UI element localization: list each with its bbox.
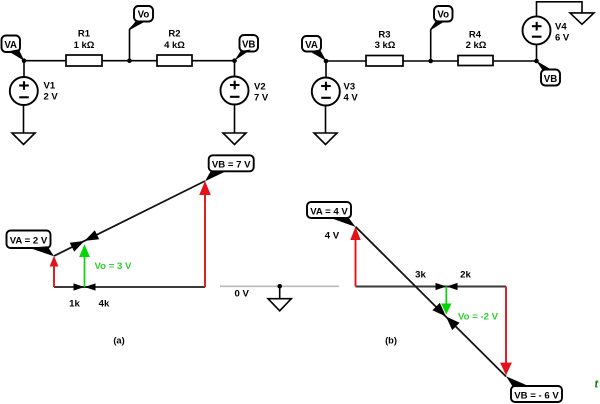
gray 0V line bbox=[220, 285, 339, 287]
svg-text:V3: V3 bbox=[344, 81, 356, 92]
svg-text:3 kΩ: 3 kΩ bbox=[375, 40, 396, 51]
ground under V1 bbox=[12, 133, 35, 145]
wire Vo tap bbox=[130, 22, 138, 61]
ground on 0V line bbox=[268, 284, 291, 311]
svg-text:4 V: 4 V bbox=[344, 92, 359, 103]
label box VA = 2 V bbox=[7, 231, 55, 257]
wire Vo2 tap bbox=[431, 22, 437, 62]
potential line VA-VB (b) bbox=[356, 227, 507, 377]
node A2 junction dot bbox=[324, 59, 329, 64]
svg-text:R4: R4 bbox=[469, 29, 482, 40]
svg-text:R3: R3 bbox=[378, 29, 390, 40]
arrowhead slope right (a) bbox=[85, 230, 100, 241]
svg-text:1 kΩ: 1 kΩ bbox=[74, 40, 95, 51]
baseline dimension arrows (b) bbox=[436, 283, 458, 290]
svg-text:V2: V2 bbox=[254, 81, 266, 92]
arrowhead slope upper (b) bbox=[432, 303, 446, 317]
svg-text:VB = 7 V: VB = 7 V bbox=[212, 160, 251, 171]
resistor R3 bbox=[366, 29, 403, 66]
wire VA node to V1 bbox=[23, 61, 25, 77]
node label VB bbox=[234, 35, 258, 61]
green arrow Vo (a) bbox=[79, 244, 90, 287]
node B junction dot bbox=[232, 58, 237, 63]
svg-text:3k: 3k bbox=[415, 269, 426, 280]
wire V4 top to ground bbox=[537, 2, 583, 16]
svg-text:1k: 1k bbox=[69, 299, 80, 310]
svg-text:4k: 4k bbox=[99, 299, 110, 310]
baseline (a) bbox=[54, 286, 205, 288]
svg-text:VB: VB bbox=[544, 74, 557, 85]
wire V2 to ground bbox=[234, 105, 236, 133]
node Vo junction dot bbox=[127, 58, 132, 63]
resistor R2 bbox=[157, 28, 192, 66]
svg-text:VA = 2 V: VA = 2 V bbox=[10, 236, 48, 247]
svg-text:4 V: 4 V bbox=[325, 231, 340, 242]
svg-text:VA: VA bbox=[305, 40, 318, 51]
svg-text:VA = 4 V: VA = 4 V bbox=[310, 206, 348, 217]
node label VA bbox=[2, 36, 25, 61]
node B2 junction dot bbox=[534, 59, 539, 64]
svg-text:(a): (a) bbox=[113, 336, 124, 346]
ground top right bbox=[570, 13, 594, 24]
wire node A2 horizontal bbox=[326, 60, 366, 62]
resistor R1 bbox=[66, 28, 102, 66]
baseline (b) bbox=[356, 286, 507, 288]
wire node A horizontal bbox=[24, 60, 66, 62]
wire V3 to ground bbox=[325, 106, 327, 133]
baseline dimension arrows (a) bbox=[74, 283, 96, 290]
ground under V3 bbox=[314, 133, 337, 145]
label box VB = - 6 V bbox=[506, 376, 562, 402]
svg-text:V4: V4 bbox=[555, 21, 567, 32]
wire R4 to node B2 bbox=[493, 60, 537, 62]
svg-text:(b): (b) bbox=[385, 336, 397, 346]
red arrow VB (a) bbox=[199, 181, 211, 287]
node Vo2 junction dot bbox=[428, 59, 433, 64]
svg-text:0 V: 0 V bbox=[234, 289, 249, 300]
arrowhead slope left (a) bbox=[70, 241, 85, 252]
svg-text:Vo: Vo bbox=[437, 10, 449, 21]
label box VA = 4 V bbox=[307, 202, 356, 227]
wire V4 bottom to node B2 bbox=[536, 45, 538, 61]
svg-text:6 V: 6 V bbox=[555, 32, 570, 43]
wire R1 to R2 bbox=[102, 60, 157, 62]
voltage source V4 bbox=[523, 16, 570, 44]
node label VA2 bbox=[302, 36, 326, 61]
svg-text:7 V: 7 V bbox=[254, 92, 269, 103]
svg-text:V1: V1 bbox=[44, 80, 56, 91]
label box VB = 7 V bbox=[205, 155, 254, 181]
ground under V2 bbox=[223, 133, 246, 145]
svg-text:2 V: 2 V bbox=[44, 91, 59, 102]
svg-text:VB: VB bbox=[242, 40, 255, 51]
svg-text:Vo = -2 V: Vo = -2 V bbox=[458, 311, 499, 322]
red arrow VB (b) bbox=[500, 287, 512, 376]
node A junction dot bbox=[22, 58, 27, 63]
green arrow Vo (b) bbox=[441, 287, 451, 315]
svg-text:R1: R1 bbox=[78, 28, 91, 39]
svg-text:VB = - 6 V: VB = - 6 V bbox=[514, 390, 559, 401]
svg-text:Vo: Vo bbox=[138, 10, 150, 21]
potential line VA-VB (a) bbox=[54, 181, 205, 256]
resistor R4 bbox=[458, 29, 493, 65]
wire VB node to V2 bbox=[234, 61, 236, 76]
node label Vo2 bbox=[431, 6, 453, 30]
svg-text:2 kΩ: 2 kΩ bbox=[466, 40, 487, 51]
node label VB2 bbox=[536, 61, 560, 86]
svg-text:R2: R2 bbox=[168, 28, 180, 39]
arrowhead slope lower (b) bbox=[446, 317, 460, 331]
red arrow VA (b) bbox=[350, 227, 360, 287]
voltage source V2 bbox=[221, 77, 269, 105]
svg-text:VA: VA bbox=[4, 40, 17, 51]
wire A2 node to V3 bbox=[325, 61, 327, 77]
node label Vo bbox=[130, 6, 153, 30]
wire R3 to R4 bbox=[403, 60, 458, 62]
wire V1 to ground bbox=[23, 106, 25, 134]
red arrow VA (a) bbox=[50, 256, 59, 287]
svg-text:2k: 2k bbox=[460, 269, 471, 280]
voltage source V3 bbox=[312, 78, 359, 106]
voltage source V1 bbox=[10, 77, 59, 105]
svg-text:Vo = 3 V: Vo = 3 V bbox=[95, 261, 132, 272]
wire R2 to node B bbox=[192, 60, 235, 62]
svg-text:4 kΩ: 4 kΩ bbox=[164, 40, 185, 51]
